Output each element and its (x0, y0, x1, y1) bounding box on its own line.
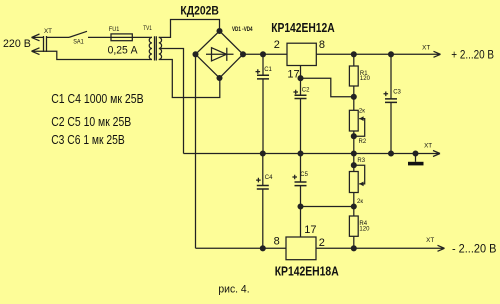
svg-text:КР142ЕН18А: КР142ЕН18А (275, 265, 339, 279)
capacitor C2 (293, 78, 306, 153)
wire bottom feed (47, 51, 153, 59)
node R2 wiper tie (351, 134, 356, 139)
svg-text:SA1: SA1 (73, 40, 84, 46)
diode bridge VD1-VD4 diamond (196, 31, 244, 78)
svg-text:рис. 4.: рис. 4. (218, 284, 249, 296)
svg-text:XT: XT (424, 143, 432, 149)
svg-text:XT: XT (44, 29, 52, 35)
svg-text:C4: C4 (265, 175, 273, 181)
svg-text:FU1: FU1 (109, 27, 120, 33)
svg-text:0,25 А: 0,25 А (108, 45, 139, 57)
diode symbol inside bridge (206, 48, 234, 61)
svg-text:XT: XT (426, 238, 434, 244)
svg-text:2к: 2к (359, 109, 365, 115)
svg-text:VD1 -VD4: VD1 -VD4 (232, 26, 253, 33)
pin 17 wire U2 (301, 207, 354, 238)
wire fuse to transformer (132, 36, 152, 38)
svg-text:R2: R2 (359, 139, 367, 145)
op-amp U1 regulator KR142EN12A box (287, 43, 316, 65)
svg-text:XT: XT (422, 45, 430, 51)
svg-text:8: 8 (274, 235, 280, 247)
node R4 bottom on negative rail (351, 246, 356, 251)
svg-text:R3: R3 (357, 158, 365, 164)
wire positive rail bridge to U1 input (243, 53, 287, 55)
node bridge bottom (217, 76, 222, 81)
svg-text:КР142ЕН12А: КР142ЕН12А (271, 21, 335, 35)
negative rail from bridge left (196, 247, 287, 249)
wire secondary center tap down (160, 48, 184, 153)
pin 17 wire U1 (301, 66, 354, 97)
switch SA1 (69, 31, 111, 37)
potentiometer R3 (349, 154, 364, 207)
node pin17 U2 (298, 204, 303, 209)
wire plug to switch (47, 36, 70, 38)
node bridge top (217, 29, 222, 34)
wire U2 output rail to arrow (316, 245, 445, 251)
transformer TV1 secondary winding (159, 37, 162, 59)
svg-text:220 В: 220 В (3, 38, 31, 50)
svg-text:+ 2...20 В: + 2...20 В (451, 48, 494, 62)
svg-text:С1 С4 1000 мк 25В: С1 С4 1000 мк 25В (51, 91, 143, 106)
node C1 top (261, 52, 266, 57)
node bridge right (241, 52, 246, 57)
svg-text:120: 120 (360, 76, 371, 82)
capacitor C4 (256, 154, 269, 249)
svg-text:C3: C3 (393, 90, 401, 96)
fuse FU1 (111, 34, 132, 41)
node R1 top on rail (351, 52, 356, 57)
svg-text:2: 2 (274, 39, 280, 51)
connector XT plug arrows (32, 34, 47, 55)
svg-text:2к: 2к (357, 199, 363, 205)
capacitor C1 (256, 54, 270, 153)
node C2-C5 on common rail (298, 151, 303, 156)
svg-text:120: 120 (359, 226, 370, 232)
transformer TV1 primary winding (149, 37, 152, 59)
capacitor C3 (384, 54, 398, 153)
middle common rail (184, 151, 441, 157)
svg-text:C5: C5 (300, 172, 308, 178)
wire secondary top to bridge top (159, 20, 220, 38)
svg-text:С2 С5 10 мк 25В: С2 С5 10 мк 25В (51, 114, 131, 129)
svg-text:8: 8 (319, 39, 325, 51)
svg-text:17: 17 (287, 68, 299, 80)
wire bridge left corner down to negative rail (195, 54, 197, 248)
svg-text:С3 С6 1 мк 25В: С3 С6 1 мк 25В (51, 132, 125, 147)
wire secondary bottom to bridge bottom (159, 60, 220, 98)
capacitor C5 (292, 154, 306, 207)
svg-text:TV1: TV1 (143, 26, 152, 32)
node C1-C4 on common rail (260, 151, 265, 156)
node C3 top (389, 52, 394, 57)
transformer TV1 core (155, 36, 157, 60)
resistor R4 (349, 207, 358, 249)
node R3 wiper tie (351, 163, 356, 168)
resistor R1 (349, 54, 358, 97)
node R2-R3 on common rail (351, 151, 356, 156)
node ground stub on common rail (413, 151, 418, 156)
node C4 bottom on negative rail (260, 246, 265, 251)
svg-text:C1: C1 (264, 67, 272, 73)
svg-text:17: 17 (304, 224, 316, 236)
node R3-R4 junction (351, 204, 356, 209)
node C3 bottom on common rail (389, 151, 394, 156)
svg-text:2: 2 (319, 237, 325, 249)
wire U1 output rail to arrow (316, 51, 440, 57)
potentiometer R2 (349, 97, 364, 154)
svg-text:КД202В: КД202В (180, 5, 218, 17)
op-amp U2 regulator KR142EN18A box (286, 237, 316, 260)
ground (408, 154, 424, 166)
node pin17 U1 (298, 76, 303, 81)
svg-text:C2: C2 (302, 88, 310, 94)
node R1-R2 junction (351, 94, 356, 99)
svg-text:- 2...20 В: - 2...20 В (452, 241, 496, 255)
node bridge left (193, 52, 198, 57)
